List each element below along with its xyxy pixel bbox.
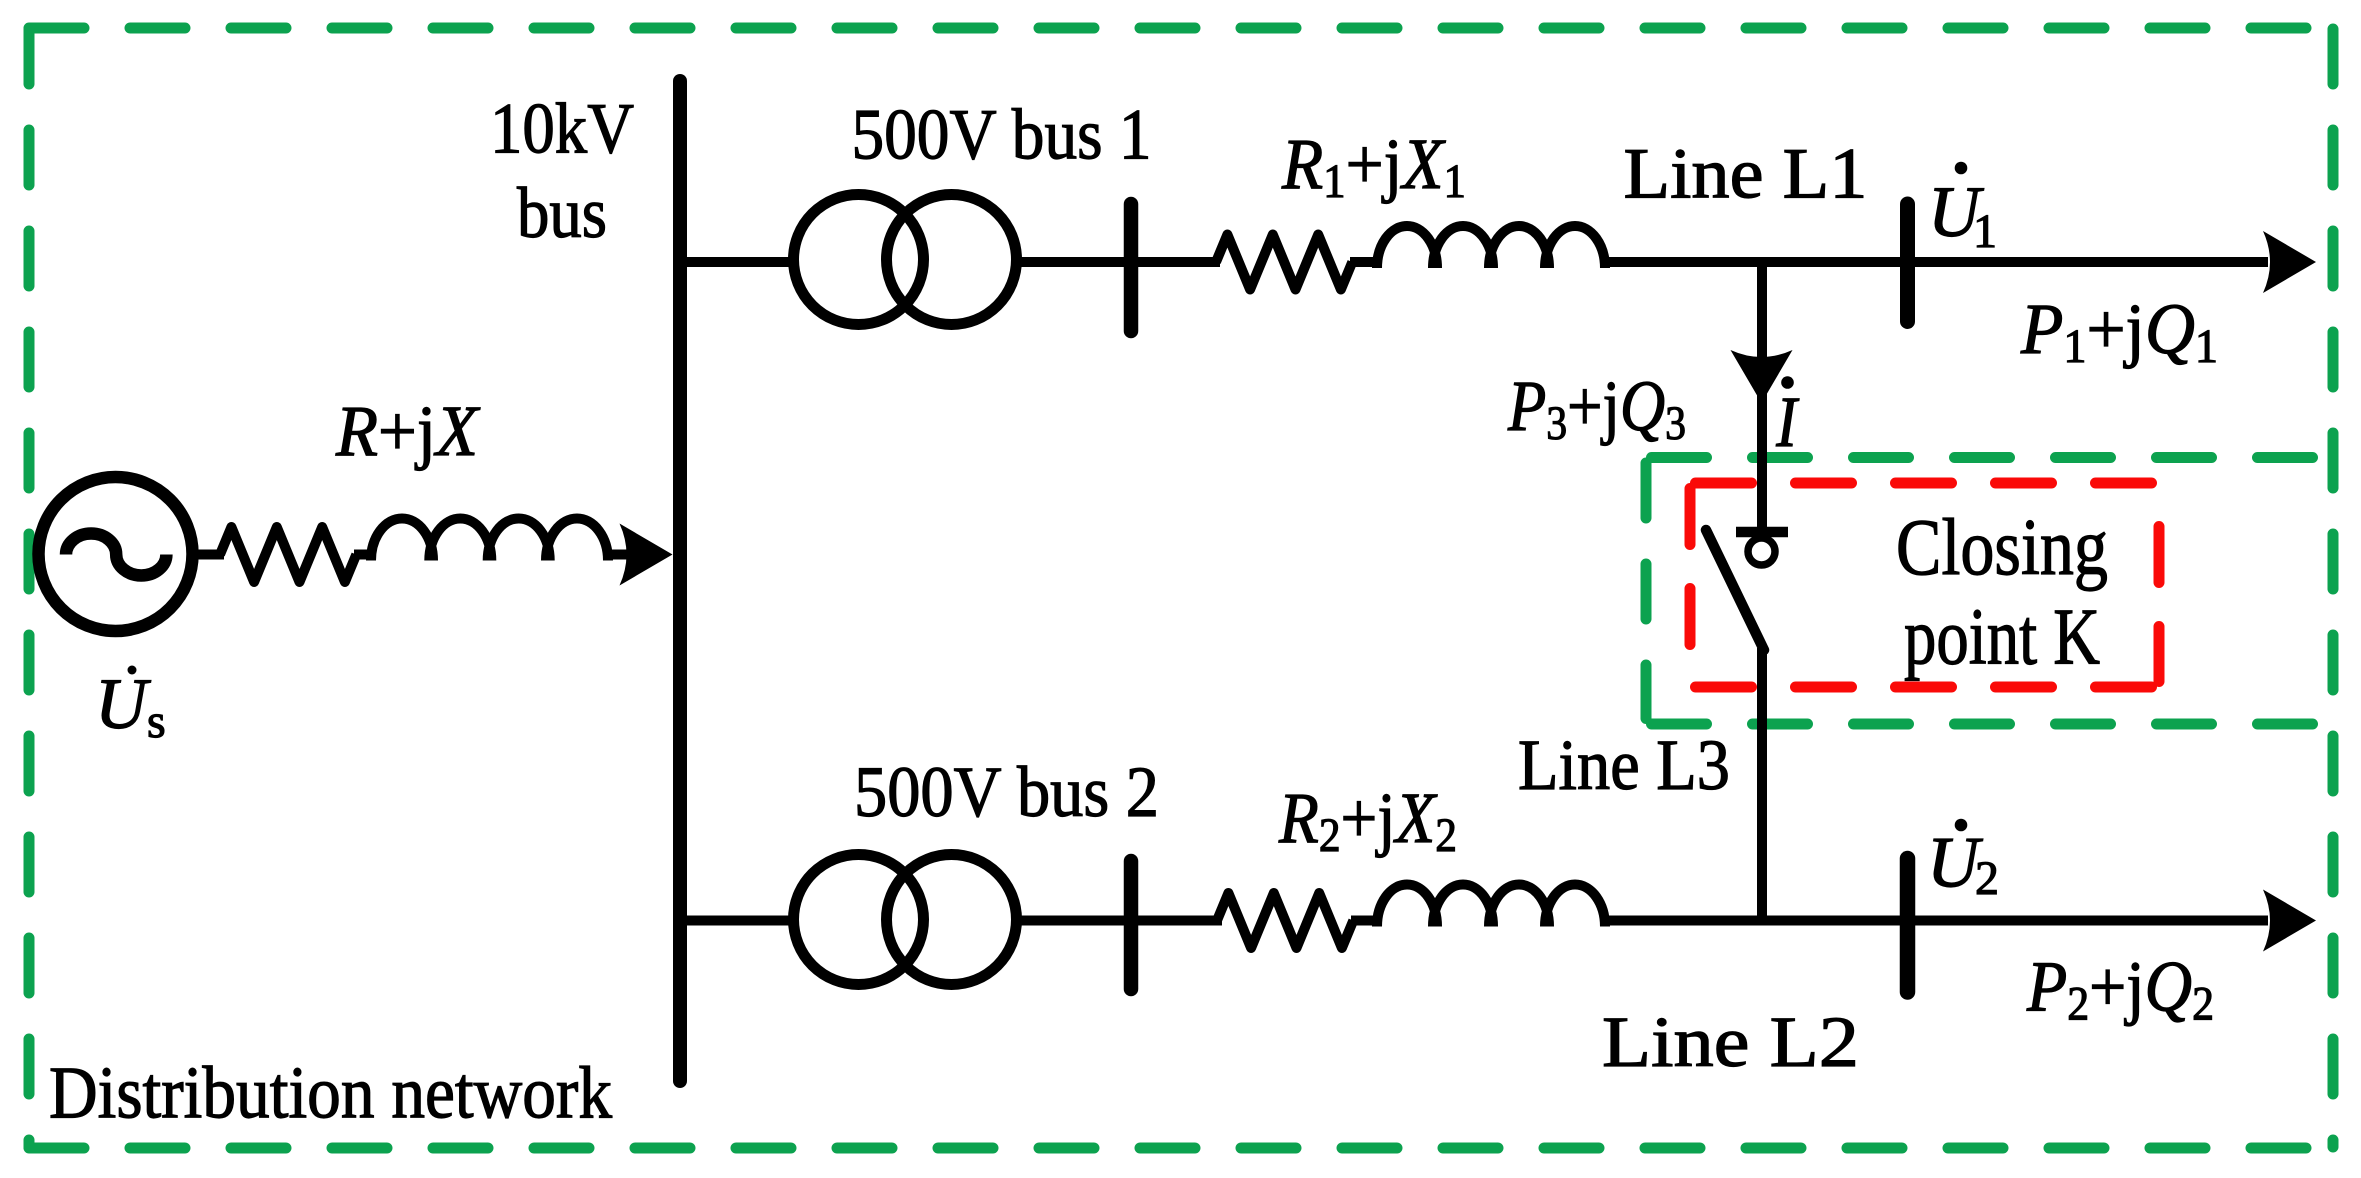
ac source sine wave	[66, 534, 166, 576]
arrowhead line L1 end	[2263, 231, 2316, 293]
resistor R2 zigzag	[1217, 893, 1353, 948]
bus tick 500V bus 1	[1124, 204, 1139, 331]
svg-text:I: I	[1775, 382, 1799, 463]
svg-text:Line L1: Line L1	[1624, 134, 1868, 214]
green dashed inner box around closing point	[1646, 458, 2330, 725]
wire R2 to inductor X2	[1351, 916, 1382, 926]
svg-text:2: 2	[1975, 852, 1999, 905]
svg-text:P2+jQ2: P2+jQ2	[2026, 947, 2214, 1031]
wire inductor to bus arrow	[608, 550, 630, 560]
svg-text:U: U	[95, 664, 151, 744]
bus tick 500V bus 2	[1124, 861, 1139, 989]
inductor X humps	[371, 519, 608, 561]
line L2 wire to right arrow	[1605, 916, 2268, 926]
resistor R zigzag	[220, 527, 356, 582]
ac source Us circle	[39, 477, 193, 631]
wire T1 to resistor R1	[1021, 257, 1220, 267]
arrowhead line L2 end	[2263, 890, 2316, 952]
wire line L3 down to bottom line	[1757, 648, 1767, 921]
dot of Us	[128, 666, 137, 675]
switch hinge ring	[1748, 538, 1775, 565]
dot of U2	[1955, 819, 1968, 832]
svg-text:s: s	[147, 695, 166, 748]
arrowhead into 10kV bus	[620, 524, 673, 586]
switch blade	[1706, 530, 1764, 650]
svg-text:500V bus 2: 500V bus 2	[854, 752, 1159, 832]
red dashed box around closing point K	[1690, 483, 2159, 687]
arrowhead current I down	[1731, 350, 1793, 403]
svg-text:1: 1	[1973, 205, 1997, 258]
transformer T1 circle b	[887, 195, 1017, 325]
dot of I	[1781, 376, 1794, 389]
svg-text:R1+jX1: R1+jX1	[1281, 124, 1466, 208]
svg-text:10kV: 10kV	[490, 89, 634, 169]
inductor X1 humps	[1377, 226, 1605, 268]
wire R1 to inductor X1	[1350, 257, 1380, 267]
svg-text:point K: point K	[1904, 592, 2100, 682]
svg-text:R2+jX2: R2+jX2	[1278, 778, 1457, 862]
svg-text:P1+jQ1: P1+jQ1	[2020, 289, 2218, 373]
wire T2 to resistor R2	[1021, 916, 1222, 926]
transformer T1 circle a	[794, 195, 924, 325]
bus bar U2	[1900, 859, 1916, 993]
transformer T2 circle a	[794, 855, 924, 985]
svg-text:P3+jQ3: P3+jQ3	[1507, 366, 1686, 450]
transformer T2 circle b	[887, 855, 1017, 985]
inductor X2 humps	[1377, 885, 1605, 927]
wire bus to transformer T1	[687, 257, 795, 267]
svg-text:Closing: Closing	[1896, 502, 2108, 592]
resistor R1 zigzag	[1216, 235, 1352, 290]
svg-text:bus: bus	[517, 173, 607, 253]
line L1 wire to right arrow	[1605, 257, 2268, 267]
dot of U1	[1955, 162, 1968, 175]
10kV bus vertical bar	[673, 81, 687, 1081]
switch top T-bar	[1736, 527, 1788, 538]
bus bar U1	[1900, 204, 1915, 322]
svg-text:Line L2: Line L2	[1602, 1002, 1859, 1082]
svg-text:Distribution network: Distribution network	[49, 1053, 612, 1135]
wire source to resistor R	[192, 550, 224, 560]
svg-text:Line L3: Line L3	[1518, 725, 1730, 805]
wire junction down from line L1	[1757, 262, 1767, 530]
wire bus to transformer T2	[687, 916, 795, 926]
wire resistor to inductor	[354, 550, 374, 560]
svg-text:500V bus 1: 500V bus 1	[852, 95, 1152, 175]
svg-text:R+jX: R+jX	[335, 391, 481, 471]
